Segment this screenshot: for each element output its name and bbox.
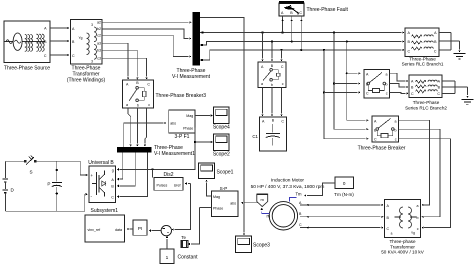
fourier block 3-P F1 [169,110,195,133]
label Three-Phase Transformer (Three Windings) [67,66,106,84]
wire sum to PI [149,229,161,231]
goto tag Te [181,241,189,248]
wire c3 to breaker3 C [102,58,148,79]
svg-text:b: b [417,216,419,220]
scope Scope3 [236,236,252,253]
bus wire phase A [200,31,405,33]
svg-text:1: 1 [166,255,169,261]
switch S on dc bus [5,155,80,165]
svg-text:b2: b2 [97,27,101,31]
wire SW1 a to C1 [261,88,263,117]
svg-text:Subsystem1: Subsystem1 [91,208,119,214]
wire a2 to V-I measurement A [102,21,192,23]
svg-text:V-I Measurement1: V-I Measurement1 [154,151,195,157]
wire bus C down-column [323,50,369,140]
wire V-I1 b to bridge B [117,152,136,187]
label Three-Phase Series RLC Branch2 [405,100,447,110]
wire RLC2 c to ground bus [442,92,455,94]
svg-text:a: a [417,204,419,208]
wire breaker3 b to V-I1 [136,108,138,147]
wire PI to Subsystem1 data [127,228,134,230]
constant block value 1 [160,249,174,264]
three-phase transformer T2 50KVA [385,200,421,238]
wire Vabc measurement to Scope3 [200,18,245,236]
svg-text:Yg: Yg [78,36,82,40]
svg-text:Uref: Uref [174,184,181,188]
wire SW1 b to C1 [271,88,273,117]
svg-text:C: C [366,92,369,96]
bus wire phase B [200,40,405,46]
svg-text:C: C [111,195,114,199]
wire RLC2 a to ground bus [442,80,455,82]
label Three-Phase Source [4,66,50,72]
svg-text:C: C [437,92,440,96]
svg-text:P: P [47,182,50,187]
wire breaker3 c to V-I1 [144,108,147,147]
svg-text:c: c [282,82,284,86]
three-phase series RLC branch1 [405,28,439,57]
svg-text:a: a [261,82,263,86]
capacitor bank C1 [260,117,287,151]
wire a3 to breaker3 A [102,43,129,79]
wire demux to S-P abs [241,202,258,204]
label 3-P F1 [175,134,190,140]
scope Scope4 [214,107,230,124]
svg-text:Tm (N-m): Tm (N-m) [334,192,354,197]
svg-text:Scope2: Scope2 [213,151,230,157]
svg-text:Scope1: Scope1 [217,170,234,176]
svg-text:abs: abs [170,122,176,126]
svg-text:Tm: Tm [296,192,303,197]
svg-text:C: C [281,65,284,69]
wire fault A to bus A [281,16,283,33]
svg-text:Yg: Yg [411,231,415,235]
svg-text:S-P: S-P [220,186,228,191]
svg-text:Mag: Mag [186,114,193,118]
label Subsystem1 [91,208,119,214]
wire RLC2 b to ground bus [442,86,468,88]
svg-text:3: 3 [91,60,93,64]
svg-text:S: S [30,170,33,175]
tap to breaker2 B [334,82,360,84]
svg-text:a: a [126,103,128,107]
dc source battery D [3,161,9,211]
wire V-I1 Vabc to 3-P F1 abs [124,122,167,147]
svg-text:a: a [395,120,397,124]
wire motor C to transformer C [300,226,384,228]
three-phase fault block F1 [279,1,304,16]
svg-text:C1: C1 [252,134,258,139]
wire dc plus to bridge [80,161,88,176]
wire fault B to bus B [290,16,292,42]
svg-text:c3: c3 [97,57,101,61]
label Universal B [88,160,114,166]
wire 3-P F1 Phase down [117,128,196,171]
induction motor M1 [269,202,297,230]
wire source A to transformer A [50,27,70,29]
label Scope2 [213,151,230,157]
wire CB3r c to transformer c [399,139,451,229]
wire S-P Mag to Scope1 [205,180,211,197]
label Tm (N-m) [334,192,354,197]
wire SW1 c to C1 [280,88,282,117]
svg-text:C: C [72,54,75,58]
ground G1 [454,41,466,59]
dc minus rail [5,193,87,211]
label P [47,182,50,187]
wire motor m to demux [261,208,270,214]
wire Tm port stub [290,198,297,202]
svg-text:Phase: Phase [213,206,223,210]
label Three-Phase V-I Measurement [172,68,211,80]
wire c2 to V-I measurement C [102,35,192,58]
svg-text:C: C [44,54,47,58]
scope Scope2 [214,134,230,151]
label Tm port [296,192,303,197]
wire Tm to motor [304,183,335,197]
label Three-phase Transformer 50 KVA 400V / 10 kV [381,239,424,254]
wire b3 to breaker3 B [102,50,139,79]
wire bus A down to SW1 [261,33,263,62]
wire RLC1 C to ground bus [439,49,451,51]
svg-text:b3: b3 [97,49,101,53]
wire CB2 b to RLC2 B [390,84,409,89]
wire bus C down to SW1 [280,50,282,62]
pwm generator Dis2 [154,178,183,191]
wire constant to sum [166,236,168,249]
svg-text:Scope3: Scope3 [253,243,270,249]
svg-text:C: C [387,227,390,231]
label Scope1 [217,170,234,176]
svg-text:c: c [148,103,150,107]
svg-text:C: C [374,138,377,142]
svg-text:(Three Windings): (Three Windings) [67,78,106,84]
svg-text:b: b [137,104,139,108]
svg-text:c: c [395,138,397,142]
svg-text:data: data [115,228,122,232]
svg-text:C: C [299,223,302,227]
wire bus A down-column [333,33,369,131]
svg-text:Constant: Constant [178,255,199,261]
wire phase ref to sum [172,184,191,231]
svg-text:a3: a3 [97,42,101,46]
svg-text:abs: abs [230,201,236,205]
svg-text:50 HP / 400 V, 37.3 Kva, 1800: 50 HP / 400 V, 37.3 Kva, 1800 rpm [251,184,325,190]
svg-text:C: C [147,83,150,87]
wire tap to PWM sync [152,169,154,177]
svg-text:C: C [434,50,437,54]
ground G2 [462,87,474,105]
wire RLC1 B to ground bus [439,40,460,42]
svg-text:a: a [391,232,393,236]
svg-text:Pulses: Pulses [157,184,168,188]
label m port [267,214,271,219]
label S [30,170,33,175]
label Constant [178,255,199,261]
label Scope4 [213,125,230,131]
universal bridge inverter Universal B [89,166,116,203]
svg-text:0: 0 [343,181,346,186]
svg-text:Series RLC Branch2: Series RLC Branch2 [405,106,447,111]
label Scope3 [253,243,270,249]
three-phase breaker CB2 [364,70,390,99]
svg-text:b: b [395,129,397,133]
label Three-Phase Fault [307,7,349,13]
svg-text:c2: c2 [97,34,101,38]
bus wire phase C [200,49,405,61]
three-phase breaker CB3r [372,116,399,142]
wire V-I1 c to bridge C [117,152,148,198]
three-phase V-I measurement1 block (bar) [117,147,152,153]
wire fault C to bus C [300,16,302,50]
label Three-Phase Breaker3 [156,93,207,99]
svg-text:Phase: Phase [183,126,193,130]
svg-text:a: a [386,73,388,77]
label Dis2 [163,172,173,178]
svg-text:Three-Phase: Three-Phase [413,100,440,105]
wire S-P Phase out [200,207,212,209]
wire source B to transformer B [50,40,70,42]
three-phase source V1 [4,21,50,63]
wire motor A to transformer A [300,204,384,206]
wire RLC1 A to ground bus [439,32,451,34]
svg-text:C: C [299,11,302,15]
three-phase breaker3 CB3 [123,80,154,108]
ground bus RLC2 [454,81,456,93]
label Three-Phase Breaker [358,146,406,152]
svg-text:vinv_ref: vinv_ref [88,228,101,232]
three-phase switch block SW1 [258,62,286,88]
three-phase transformer T1 (three windings) [71,20,103,65]
wire Te from S-P Phase [188,208,200,246]
svg-text:V-I Measurement: V-I Measurement [172,74,211,80]
svg-text:Series RLC Branch1: Series RLC Branch1 [402,62,444,67]
svg-text:C: C [408,50,411,54]
tap to breaker2 A [347,72,361,74]
wire bus B down-column [346,42,369,122]
svg-text:PI: PI [138,226,142,231]
svg-text:C: C [281,120,284,124]
wire CB2 c to RLC2 C [390,92,409,94]
dc link capacitor P [52,161,62,211]
svg-text:C: C [411,92,414,96]
subsystem Subsystem1 [85,215,125,242]
pi controller PI [133,220,147,235]
tap to breaker2 C [324,91,361,93]
svg-text:3-P F1: 3-P F1 [175,134,190,140]
svg-text:Three-Phase Fault: Three-Phase Fault [307,7,349,13]
scope Scope1 [199,163,215,179]
svg-text:g: g [112,168,114,172]
wire phase ref to PWM Uref [185,182,191,184]
svg-text:Dis2: Dis2 [163,172,173,178]
svg-text:50 KVA 400V / 10 kV: 50 KVA 400V / 10 kV [381,250,424,255]
wire bus B down to SW1 [271,42,273,62]
svg-text:Three-Phase Breaker: Three-Phase Breaker [358,146,406,152]
label Three-Phase V-I Measurement1 [154,145,195,157]
svg-text:Scope4: Scope4 [213,125,230,131]
wire source C to transformer C [50,54,70,56]
label Te [181,235,186,240]
svg-text:m: m [267,214,271,219]
svg-text:Induction Motor: Induction Motor [271,178,304,184]
wire tap to Scope2 [195,141,213,143]
wire V-I1 a to bridge A [117,152,123,180]
fourier block S-P [212,191,239,217]
svg-text:Universal B: Universal B [88,160,114,166]
wire 3-P F1 Mag to Scope4 [195,114,213,116]
three-phase V-I measurement block (bar) [193,12,201,66]
wire CB2 a to RLC2 A [390,73,409,82]
junction dots on bus lines [261,31,348,51]
label Induction Motor title [251,178,325,191]
wire motor B to transformer B [300,216,384,218]
svg-text:Te: Te [181,235,186,240]
wire CB3r b to transformer b [399,129,441,218]
sum junction (error) [161,225,171,235]
label S-P [220,186,228,191]
svg-text:Mag: Mag [213,195,220,199]
label Three-Phase Series RLC Branch1 [402,57,444,67]
wire breaker3 a to V-I1 [128,108,132,147]
svg-text:Three-Phase Breaker3: Three-Phase Breaker3 [156,93,207,99]
ground bus RLC1 [450,33,452,51]
machines measurement demux [257,194,268,207]
wire b2 to V-I measurement B [102,29,192,40]
label D [11,188,15,193]
constant block Tm value 0 [335,177,354,189]
svg-text:a2: a2 [97,21,101,25]
svg-text:3: 3 [91,23,93,27]
label C1 [252,134,258,139]
svg-text:b: b [271,83,273,87]
wire CB3r a to transformer a [399,120,430,206]
svg-text:Three-Phase Source: Three-Phase Source [4,66,50,72]
motor terminal letters A B C [299,201,302,227]
svg-text:c: c [386,92,388,96]
three-phase series RLC branch2 [409,75,442,98]
svg-text:c: c [417,227,419,231]
